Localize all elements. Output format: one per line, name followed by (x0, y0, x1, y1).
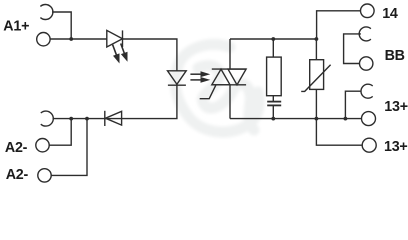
wire BB bracket (344, 34, 361, 64)
svg-text:A2-: A2- (5, 140, 28, 156)
opto arrow 2 (190, 77, 210, 83)
terminal A1+ bridge arc (40, 5, 53, 20)
resistor R1 lead top (272, 39, 274, 57)
node top rail resistor (271, 37, 275, 41)
varistor RV1 lead bottom (315, 89, 317, 118)
capacitor C1 plate 2 (267, 104, 281, 106)
terminal A2- bridge arc (41, 111, 54, 126)
terminal BB circle (360, 57, 373, 70)
wire arc-to-junction (52, 12, 71, 39)
capacitor C1 plate 1 (267, 101, 281, 103)
diode D2 cathode bar (104, 111, 106, 126)
top rail (230, 38, 316, 40)
svg-text:14: 14 (382, 6, 398, 22)
resistor R1 body (267, 57, 282, 96)
terminal 14 circle (361, 4, 375, 18)
wire rail up to terminal 14 (317, 11, 361, 39)
triac Q1 bottom lead (229, 85, 231, 119)
terminal A1+ screw circle (37, 33, 50, 46)
svg-text:BB: BB (385, 48, 405, 64)
node top rail varistor (315, 37, 319, 41)
LED D1 cathode bar (122, 30, 124, 47)
wire opto LED down to A2 rail (53, 85, 177, 118)
optocoupler LED cathode bar (168, 84, 186, 86)
opto arrow 1 (190, 71, 210, 77)
capacitor C1 lead bottom (272, 106, 274, 119)
wire to lower 13+ (316, 119, 362, 146)
terminal A2- circle 1 (36, 139, 49, 152)
wire A2 circle2 drop (51, 119, 87, 176)
diode D2 triangle (105, 111, 121, 125)
optocoupler LED triangle (168, 71, 187, 85)
node bottom rail varistor (315, 117, 319, 121)
svg-text:13+: 13+ (384, 139, 408, 155)
wire A1 circle to LED1 (50, 38, 107, 40)
node junction A2 b (85, 117, 89, 121)
terminal A2- circle 2 (38, 169, 51, 182)
node bottom rail bridge (344, 117, 348, 121)
wire LED1 to optocoupler (123, 39, 177, 71)
node junction A2 a (69, 117, 73, 121)
LED D1 emission arrow 1 (113, 45, 120, 64)
wire R1 to C1 (272, 96, 274, 102)
LED D1 indicator triangle (107, 30, 123, 47)
node bottom rail capacitor (271, 117, 275, 121)
node junction A1 (69, 37, 73, 41)
terminal 13+ bridge arc (361, 84, 373, 98)
terminal BB bridge arc (359, 27, 371, 41)
varistor RV1 body (310, 60, 324, 90)
svg-text:A1+: A1+ (3, 18, 29, 34)
triac Q1 gate lead (200, 85, 216, 99)
varistor RV1 diagonal (301, 65, 330, 92)
bottom rail (230, 118, 362, 120)
triac Q1 left triangle (212, 69, 230, 85)
LED D1 emission arrow 2 (121, 44, 128, 62)
terminal 13+ circle lower (362, 138, 376, 152)
triac Q1 top bar (212, 68, 246, 70)
svg-text:13+: 13+ (384, 99, 408, 115)
varistor RV1 lead top (315, 39, 317, 60)
wire 13+ bracket (345, 91, 361, 118)
wire A2 circle1 drop (49, 119, 71, 146)
svg-text:A2-: A2- (6, 167, 29, 183)
terminal 13+ circle upper (362, 112, 376, 126)
triac Q1 bottom bar (212, 84, 246, 86)
triac Q1 top lead (229, 39, 231, 69)
triac Q1 right triangle (228, 69, 246, 85)
